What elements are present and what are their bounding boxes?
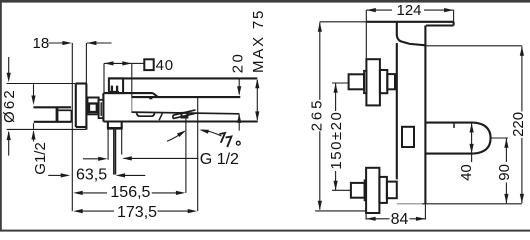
svg-text:150±20: 150±20 [328,111,345,170]
svg-text:220: 220 [510,112,527,137]
svg-text:G1/2: G1/2 [32,142,49,175]
svg-text:84: 84 [391,211,409,228]
svg-text:MAX 75: MAX 75 [250,9,267,73]
svg-text:40: 40 [156,57,174,74]
svg-text:156,5: 156,5 [110,184,150,201]
svg-text:173,5: 173,5 [117,204,157,221]
svg-text:265: 265 [308,98,325,131]
svg-text:63,5: 63,5 [76,167,107,184]
svg-text:G 1/2: G 1/2 [200,151,239,168]
svg-text:Ø62: Ø62 [1,88,18,123]
svg-text:18: 18 [33,35,50,52]
svg-text:20: 20 [229,52,246,73]
svg-text:90: 90 [496,164,513,181]
svg-text:124: 124 [397,2,422,19]
svg-text:40: 40 [458,164,475,181]
